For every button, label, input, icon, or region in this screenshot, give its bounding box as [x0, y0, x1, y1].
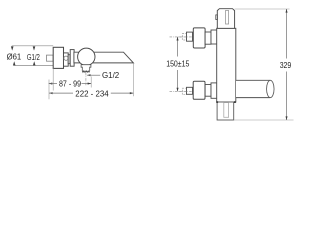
- union nut: [64, 53, 69, 66]
- dimension 222-234 right arrow: [130, 92, 134, 94]
- top cap (chamfered): [217, 9, 234, 29]
- dimension 87-99 left arrow: [49, 83, 53, 85]
- svg-text:150±15: 150±15: [166, 59, 189, 69]
- escutcheon (wall rosette, side): [53, 47, 63, 68]
- top valve ring: [211, 30, 217, 44]
- extension line outlet front: [90, 77, 92, 88]
- leader arrow down at O61: [11, 46, 14, 50]
- outlet nub with aerator teeth: [81, 65, 91, 73]
- leader line top (to escutcheon corner): [12, 45, 53, 47]
- 329 extension line bottom: [234, 119, 294, 121]
- extension line wall plane: [48, 80, 50, 100]
- cap slot: [226, 11, 229, 25]
- svg-text:222 - 234: 222 - 234: [75, 88, 109, 98]
- G1/2 bottom leader line: [87, 74, 100, 76]
- dimension 150+-15 top arrow: [177, 37, 179, 41]
- nut inner detail circle: [64, 56, 68, 60]
- spout (side profile with chamfered tip): [74, 52, 133, 63]
- bottom valve ring: [211, 83, 217, 98]
- dimension 150+-15 bottom arrow: [177, 88, 179, 92]
- dimension 329 vertical line: [286, 9, 288, 59]
- top valve neck: [205, 32, 211, 44]
- top valve centerline overlay: [179, 36, 193, 38]
- bottom valve wall stub (dashed): [182, 88, 186, 95]
- top valve handle: [193, 28, 205, 48]
- column body: [217, 28, 236, 102]
- body ring: [70, 50, 74, 67]
- leader arrow up below O61: [13, 61, 16, 65]
- bottom valve handle: [193, 81, 205, 99]
- column bottom corner dots: [216, 101, 218, 103]
- cap left nub: [216, 15, 218, 20]
- 329 extension line top: [235, 8, 290, 10]
- bottom valve neck: [205, 85, 211, 97]
- extension line spout tip: [132, 63, 134, 96]
- dimension 87-99 right arrow: [88, 83, 92, 85]
- top valve wall stub (dashed): [182, 34, 186, 41]
- dimension 222-234 left arrow: [49, 92, 53, 94]
- svg-text:G1/2: G1/2: [102, 70, 119, 80]
- leader line bottom: [14, 64, 53, 66]
- bottom valve centerline overlay: [179, 90, 193, 92]
- svg-text:329: 329: [280, 60, 292, 70]
- bottom valve centerline: [170, 90, 194, 92]
- spout end ellipse: [267, 80, 275, 97]
- wall thread stub: [47, 55, 54, 61]
- dimension 87-99 line segments: [49, 83, 57, 85]
- leader arrow up below G1/2: [33, 61, 36, 65]
- dimension 150+-15 vertical line: [177, 37, 179, 57]
- thermostat knob (circle): [78, 48, 95, 65]
- svg-text:Ø61: Ø61: [7, 51, 22, 61]
- spacer collar: [68, 55, 70, 64]
- bottom valve connector: [187, 87, 193, 94]
- bottom inner tube: [224, 103, 229, 118]
- spout bar (front, cylinder with elliptical end): [236, 80, 270, 97]
- outlet centerline (dash-dot): [85, 73, 87, 85]
- extension line below escutcheon: [52, 68, 54, 90]
- G1/2 bottom leader arrow: [87, 74, 91, 76]
- svg-text:G1/2: G1/2: [27, 52, 40, 62]
- leader arrow down at G1/2: [33, 46, 36, 50]
- dimension 329 top arrow: [286, 9, 288, 13]
- dimension 329 bottom arrow: [286, 116, 288, 120]
- svg-text:87 - 99: 87 - 99: [59, 78, 81, 88]
- bottom box: [217, 102, 234, 120]
- top valve centerline: [170, 36, 194, 38]
- dimension 222-234 line segments: [49, 92, 73, 94]
- top valve connector: [187, 32, 193, 41]
